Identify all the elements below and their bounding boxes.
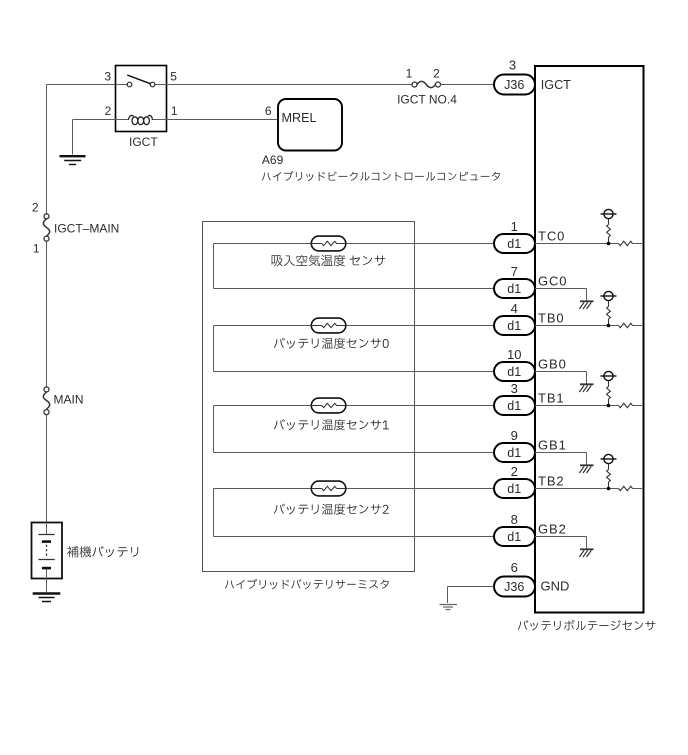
svg-text:7: 7 (511, 264, 518, 279)
svg-text:TB0: TB0 (538, 311, 565, 326)
svg-text:IGCT: IGCT (129, 135, 158, 149)
svg-text:TB2: TB2 (538, 474, 565, 489)
svg-text:GND: GND (541, 579, 570, 594)
svg-text:3: 3 (509, 58, 516, 73)
svg-text:A69: A69 (262, 153, 284, 167)
svg-text:6: 6 (511, 560, 518, 575)
svg-text:GB1: GB1 (538, 438, 567, 453)
svg-text:GC0: GC0 (538, 274, 567, 289)
svg-text:9: 9 (511, 428, 518, 443)
svg-text:J36: J36 (504, 78, 524, 92)
svg-text:1: 1 (33, 242, 40, 256)
svg-text:IGCT: IGCT (541, 78, 571, 92)
svg-text:d1: d1 (507, 530, 521, 544)
svg-text:IGCT NO.4: IGCT NO.4 (397, 92, 457, 106)
svg-text:GB2: GB2 (538, 522, 567, 537)
svg-text:d1: d1 (507, 237, 521, 251)
svg-text:3: 3 (104, 69, 111, 83)
svg-text:2: 2 (105, 104, 112, 118)
svg-text:1: 1 (406, 67, 413, 81)
svg-text:5: 5 (170, 69, 177, 83)
svg-text:4: 4 (511, 301, 518, 316)
svg-text:J36: J36 (504, 580, 524, 594)
svg-text:2: 2 (433, 67, 440, 81)
svg-text:2: 2 (511, 464, 518, 479)
svg-text:MAIN: MAIN (54, 392, 84, 406)
svg-text:TB1: TB1 (538, 391, 565, 406)
svg-text:2: 2 (32, 201, 39, 215)
svg-text:d1: d1 (507, 365, 521, 379)
svg-text:1: 1 (511, 219, 518, 234)
svg-text:3: 3 (511, 381, 518, 396)
svg-text:d1: d1 (507, 482, 521, 496)
svg-text:TC0: TC0 (538, 229, 565, 244)
svg-text:d1: d1 (507, 399, 521, 413)
svg-text:8: 8 (511, 512, 518, 527)
svg-text:IGCT–MAIN: IGCT–MAIN (54, 221, 119, 235)
svg-text:MREL: MREL (282, 111, 317, 125)
svg-text:10: 10 (507, 347, 521, 362)
svg-text:1: 1 (171, 104, 178, 118)
svg-text:d1: d1 (507, 282, 521, 296)
svg-text:GB0: GB0 (538, 357, 567, 372)
svg-text:d1: d1 (507, 446, 521, 460)
svg-text:6: 6 (265, 104, 272, 118)
svg-text:d1: d1 (507, 319, 521, 333)
